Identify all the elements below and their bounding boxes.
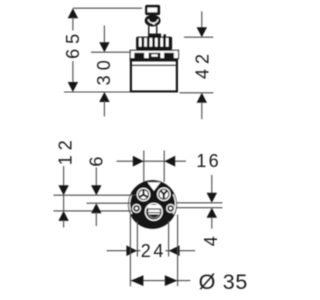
svg-text:65: 65 [63,29,83,59]
svg-text:4: 4 [201,236,221,246]
svg-text:6: 6 [86,157,106,167]
svg-text:35: 35 [223,270,248,294]
svg-text:24: 24 [141,241,166,261]
svg-text:12: 12 [56,135,76,165]
svg-text:30: 30 [94,55,114,85]
svg-text:42: 42 [193,49,213,79]
svg-text:16: 16 [196,151,220,171]
svg-text:Ø: Ø [199,270,216,294]
